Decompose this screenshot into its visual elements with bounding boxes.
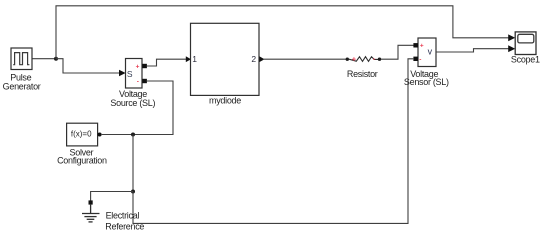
port square electrical reference xyxy=(89,200,93,204)
junction node A xyxy=(54,57,58,61)
wire: sensor output to scope input 2 xyxy=(436,49,509,52)
svg-text:Electrical: Electrical xyxy=(106,211,140,221)
svg-text:Resistor: Resistor xyxy=(347,69,378,79)
svg-text:2: 2 xyxy=(251,54,256,64)
port square VS- xyxy=(142,79,147,83)
port square VS+ xyxy=(142,64,147,68)
resistor right terminal dot xyxy=(378,58,381,61)
block mydiode xyxy=(191,23,260,95)
svg-text:Sensor (SL): Sensor (SL) xyxy=(404,77,449,87)
wire: node B down to ground node xyxy=(132,135,134,192)
svg-text:+: + xyxy=(136,64,140,71)
svg-text:-: - xyxy=(419,56,421,63)
wire: node A up and across to scope input 1 xyxy=(56,6,509,59)
wire: pulse generator output to node A xyxy=(32,58,56,60)
port solver configuration output xyxy=(98,133,102,137)
wire: VS+ to mydiode pin 1 xyxy=(147,59,188,66)
resistor left terminal dot xyxy=(346,58,349,61)
svg-text:mydiode: mydiode xyxy=(209,96,241,106)
svg-text:1: 1 xyxy=(192,54,197,64)
port square sensor - xyxy=(413,57,418,61)
wire: VS- to node B xyxy=(133,81,173,135)
svg-text:Generator: Generator xyxy=(3,82,41,92)
wire: mydiode pin 2 to resistor xyxy=(263,58,346,60)
resistor R1 xyxy=(349,57,378,62)
svg-text:+: + xyxy=(352,55,357,64)
svg-text:f(x)=0: f(x)=0 xyxy=(71,130,92,139)
junction ground node xyxy=(131,190,135,194)
label Electrical Reference xyxy=(105,211,144,232)
block Solver Configuration xyxy=(67,123,98,146)
block Voltage Sensor (SL) xyxy=(418,38,436,67)
block Scope1 xyxy=(515,32,536,55)
port square mydiode pin 1 xyxy=(186,56,191,62)
wire: ground node to electrical reference xyxy=(91,192,133,201)
svg-text:S: S xyxy=(127,69,133,79)
svg-text:v: v xyxy=(428,47,433,57)
svg-text:Scope1: Scope1 xyxy=(511,54,540,64)
svg-text:-: - xyxy=(137,79,139,86)
wire: node A to voltage source S input xyxy=(56,59,120,73)
label Voltage Sensor (SL) xyxy=(404,69,449,87)
junction node B xyxy=(131,133,135,137)
ground electrical reference symbol xyxy=(82,205,100,222)
label Solver Configuration xyxy=(57,147,107,165)
wire: resistor to voltage sensor + xyxy=(381,45,414,59)
label Pulse Generator xyxy=(3,72,41,91)
block Pulse Generator xyxy=(11,48,32,70)
svg-text:Configuration: Configuration xyxy=(57,156,107,166)
arrowhead into S input xyxy=(119,70,126,77)
block Voltage Source (SL) xyxy=(126,59,143,89)
port square mydiode pin 2 xyxy=(259,56,264,62)
port square sensor + xyxy=(413,43,418,47)
arrowhead into scope input 2 xyxy=(508,45,515,52)
svg-text:+: + xyxy=(420,42,424,49)
svg-text:Source (SL): Source (SL) xyxy=(110,98,155,108)
wire: solver output to node B xyxy=(102,134,133,136)
arrowhead into scope input 1 xyxy=(508,34,515,41)
wire: ground node to voltage sensor - xyxy=(133,59,414,224)
label Voltage Source (SL) xyxy=(110,89,155,108)
